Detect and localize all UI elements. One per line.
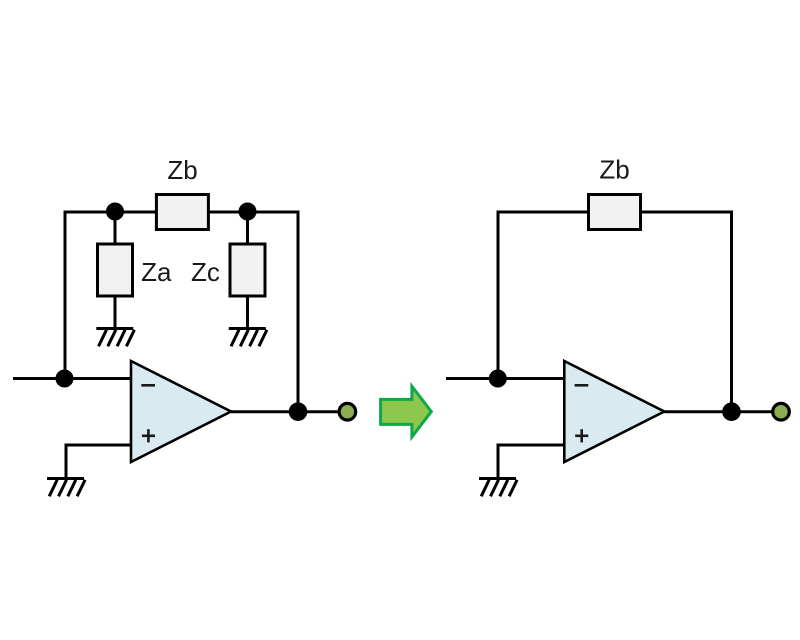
wire: Za top stub — [114, 212, 117, 245]
wire: right vertical feedback drop (right circuit) — [730, 212, 733, 412]
wire: left vertical feedback riser (right circuit) — [497, 211, 500, 379]
wire: output (right) — [664, 410, 771, 413]
svg-text:Za: Za — [141, 257, 172, 287]
wire: top feedback horizontal (right circuit) — [497, 211, 734, 214]
ground (right op-amp + input) — [479, 479, 517, 497]
node: output junction (left) — [289, 402, 308, 421]
wire: non-inverting input (right) — [497, 445, 566, 479]
svg-text:Zb: Zb — [167, 155, 197, 185]
label Za — [141, 257, 172, 287]
ground (below Za) — [96, 329, 134, 347]
wire: right vertical feedback drop — [297, 212, 300, 412]
resistor Zb (left) — [156, 195, 208, 230]
ground (below Zc) — [229, 329, 267, 347]
node: left Zb junction — [106, 203, 124, 221]
node: inverting input junction (left) — [56, 370, 74, 388]
ground (left op-amp + input) — [47, 479, 85, 497]
label Zb (left) — [167, 155, 197, 185]
wire: output (left) — [231, 410, 338, 413]
resistor Zb (right) — [589, 195, 641, 230]
resistor Za — [98, 244, 133, 296]
wire: left vertical feedback riser — [64, 211, 67, 379]
svg-text:Zc: Zc — [191, 257, 220, 287]
label Zc — [191, 257, 220, 287]
wire: Zc top stub — [246, 212, 249, 245]
wire: top feedback horizontal — [64, 211, 300, 214]
output terminal (left) — [339, 403, 356, 420]
wire: Zc bottom stub — [246, 296, 249, 329]
op-amp U2 (right) — [564, 361, 664, 462]
wire: input to inverting input (left) — [13, 377, 132, 380]
node: right Zb junction — [239, 203, 257, 221]
output terminal (right) — [773, 403, 790, 420]
resistor Zc — [230, 244, 265, 296]
node: output junction (right) — [722, 402, 741, 421]
node: inverting input junction (right) — [489, 370, 507, 388]
label Zb (right) — [599, 155, 629, 185]
wire: input to inverting input (right) — [446, 377, 565, 380]
svg-text:Zb: Zb — [599, 155, 629, 185]
transform arrow — [381, 386, 432, 437]
op-amp U1 (left) — [131, 361, 231, 462]
wire: non-inverting input (left) — [65, 445, 133, 479]
wire: Za bottom stub — [114, 296, 117, 329]
